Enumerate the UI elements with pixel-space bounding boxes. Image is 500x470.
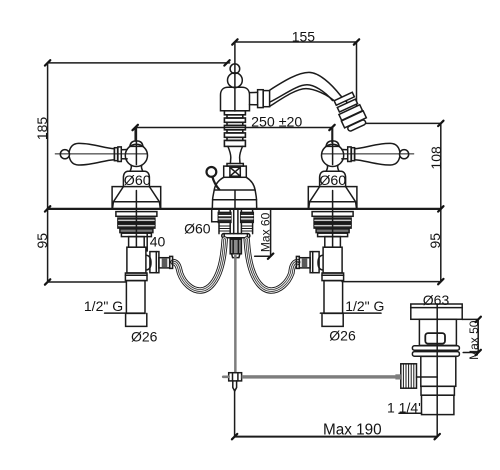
- dim Max190 line: [232, 390, 440, 439]
- valve body: [127, 247, 146, 273]
- shank plate: [222, 234, 250, 238]
- dim diam60 center witness: [212, 210, 220, 222]
- svg-text:Max 60: Max 60: [258, 212, 272, 252]
- pop-up rod lower pin: [233, 381, 237, 391]
- pop-up rod clevis: [223, 373, 241, 381]
- svg-text:Ø60: Ø60: [319, 173, 346, 189]
- handle base plate rect: [308, 187, 357, 209]
- dim 155 line: [232, 39, 359, 122]
- spout collar box: [224, 166, 247, 177]
- valve neck tube: [129, 237, 145, 248]
- dim diam26 left bracket: [126, 313, 147, 326]
- svg-text:1 1/4': 1 1/4': [387, 399, 421, 415]
- drain washer plate 2: [412, 352, 459, 357]
- svg-text:155: 155: [292, 29, 316, 45]
- ball dome cap: [326, 141, 339, 147]
- spout arm neck: [250, 92, 258, 104]
- svg-text:108: 108: [428, 146, 444, 170]
- lever tip ball: [400, 150, 409, 159]
- svg-text:1/2" G: 1/2" G: [345, 298, 384, 314]
- ball cap chord: [326, 145, 340, 147]
- skirt seam: [113, 201, 159, 203]
- dim Max60 bracket: [255, 209, 274, 259]
- spout body: [221, 87, 250, 111]
- knurled nut: [395, 364, 416, 388]
- pivot rod inside body: [417, 376, 438, 378]
- dim halfinch right underline: [320, 312, 381, 314]
- coupling band: [125, 273, 147, 281]
- below-deck flange discs: [116, 212, 157, 237]
- drain centerline: [436, 304, 438, 415]
- below-deck flange discs: [312, 212, 353, 237]
- left vertical dimension line: [45, 63, 50, 285]
- drain coupling: [421, 386, 454, 395]
- svg-text:250 ±20: 250 ±20: [251, 115, 302, 131]
- dim 108 extension from spout outlet: [365, 122, 441, 124]
- shank right tube: [241, 209, 254, 234]
- dim 95 left extension: [48, 281, 127, 283]
- drain lower body: [421, 356, 456, 386]
- drain tailpipe: [422, 395, 454, 414]
- drain upper body: [419, 319, 456, 345]
- handle neck hourglass: [326, 166, 339, 172]
- hose nipple: [296, 256, 310, 268]
- spout middle ball: [228, 73, 243, 88]
- spout tube middle line: [270, 85, 333, 102]
- pop-up knob stem: [212, 177, 219, 190]
- horizontal pop-up rod: [242, 375, 401, 378]
- dim Max50 bracket: [462, 317, 481, 356]
- right handle unit (mirror of left): [296, 128, 413, 314]
- dim 250 line: [133, 125, 335, 143]
- spout neck funnel: [227, 146, 243, 166]
- right vertical dimension line: [438, 121, 443, 285]
- dim 95 right extension: [342, 281, 441, 283]
- svg-text:Ø26: Ø26: [329, 328, 356, 344]
- skirt seam: [310, 201, 356, 203]
- dim halfinch left underline: [105, 312, 145, 314]
- dim 40 witness line: [146, 231, 148, 252]
- svg-text:Ø60: Ø60: [124, 173, 151, 189]
- valve body: [323, 247, 342, 273]
- valve centerline below deck: [135, 209, 137, 247]
- drain washer plate 1: [412, 346, 459, 350]
- handle neck hourglass: [130, 166, 143, 172]
- lever axis centerline: [55, 153, 147, 155]
- pop-up knob: [207, 167, 217, 177]
- valve centerline below deck: [332, 209, 334, 247]
- spout set screw square: [230, 167, 240, 176]
- lower tube: [324, 281, 343, 314]
- spout tube bottom line: [270, 89, 338, 107]
- ball dome cap: [130, 141, 143, 147]
- svg-text:Ø63: Ø63: [423, 292, 450, 308]
- right hose: [247, 240, 298, 291]
- lower tube: [126, 281, 145, 314]
- lever collar rings: [351, 148, 354, 161]
- spout arm collar: [258, 90, 264, 108]
- spout centerline: [234, 42, 236, 111]
- svg-text:Max 50: Max 50: [467, 320, 481, 360]
- deck line: [48, 208, 441, 210]
- lever body: [69, 143, 114, 165]
- spout bell base: [212, 177, 256, 208]
- spout top small ball: [230, 64, 240, 74]
- dim 1 1/4 underline: [399, 412, 422, 414]
- shank left tube: [218, 209, 231, 234]
- outlet shoulder bump: [318, 255, 322, 270]
- spout tube top line: [270, 72, 349, 103]
- svg-text:185: 185: [34, 117, 50, 141]
- drain flange: [411, 304, 462, 319]
- handle skirt slants: [113, 187, 161, 209]
- outlet shoulder bump: [147, 255, 151, 270]
- spout ribbed column: [224, 111, 245, 147]
- svg-text:Max 190: Max 190: [323, 422, 382, 439]
- svg-text:95: 95: [427, 233, 443, 249]
- dim 185 line: [45, 60, 230, 65]
- svg-text:95: 95: [34, 233, 50, 249]
- handle skirt slants: [309, 187, 357, 209]
- drain overflow square: [425, 333, 445, 344]
- lever tip ball: [60, 150, 69, 159]
- hose nipple: [159, 256, 173, 268]
- spout aerator: [332, 91, 368, 132]
- coupling band: [322, 273, 344, 281]
- handle ball joint: [322, 144, 344, 166]
- handle base plate rect: [112, 187, 161, 209]
- ball cap chord: [130, 145, 144, 147]
- valve neck tube: [325, 237, 341, 248]
- left hose: [174, 240, 225, 291]
- handle centerline: [135, 128, 137, 165]
- pop-up vertical rod: [234, 254, 237, 373]
- handle dome base: [320, 171, 346, 186]
- left handle unit: [55, 128, 172, 314]
- handle dome base: [123, 171, 149, 186]
- handle centerline: [332, 128, 334, 165]
- pop-up rod guide block: [230, 239, 241, 257]
- lever axis centerline: [322, 153, 414, 155]
- svg-text:Ø60: Ø60: [184, 220, 211, 236]
- pop-up rod guide tube: [234, 209, 238, 234]
- dim diam26 right bracket: [322, 313, 343, 326]
- outlet hex nut: [150, 252, 159, 273]
- lever collar rings: [114, 148, 117, 161]
- svg-text:Ø26: Ø26: [131, 329, 158, 345]
- handle ball joint: [125, 144, 147, 166]
- svg-text:40: 40: [150, 234, 166, 250]
- lever body: [355, 143, 400, 165]
- svg-text:1/2" G: 1/2" G: [84, 298, 123, 314]
- outlet hex nut: [310, 252, 319, 273]
